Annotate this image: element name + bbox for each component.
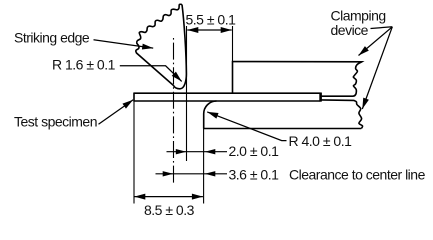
- top clamp outline: [233, 62, 362, 97]
- svg-text:R 4.0 ± 0.1: R 4.0 ± 0.1: [289, 133, 353, 149]
- dimension 2.0 left arrowhead: [176, 149, 187, 154]
- test specimen right end cap: [319, 93, 322, 102]
- dimension 3.6 left arrowhead: [163, 171, 174, 176]
- svg-text:R 1.6 ± 0.1: R 1.6 ± 0.1: [52, 57, 116, 73]
- specimen left end extension line: [133, 101, 135, 204]
- test specimen left end cap: [133, 93, 135, 102]
- dimension 2.0 line: [167, 151, 228, 153]
- clamping device arrow to bottom clamp: [362, 27, 392, 109]
- dimension 5.5 line: [187, 29, 231, 31]
- svg-text:device: device: [331, 22, 369, 38]
- center line (dash-dot): [173, 38, 175, 183]
- strike point extension line: [186, 26, 188, 161]
- svg-text:2.0 ± 0.1: 2.0 ± 0.1: [229, 143, 280, 159]
- bottom clamp face extension line: [203, 129, 205, 204]
- dimension 8.5 line: [134, 196, 203, 198]
- dimension 3.6 line: [156, 173, 228, 175]
- svg-text:3.6 ± 0.1: 3.6 ± 0.1: [229, 166, 280, 182]
- bottom clamp fillet R4.0 and left face: [204, 101, 217, 129]
- svg-text:Clearance to center line: Clearance to center line: [289, 166, 426, 182]
- clamping device arrow to top clamp: [359, 27, 393, 56]
- clamp face extension line: [232, 26, 234, 62]
- clamping device leader fork: [371, 27, 393, 29]
- svg-text:5.5 ± 0.1: 5.5 ± 0.1: [186, 12, 237, 28]
- test specimen bottom edge: [134, 100, 321, 102]
- test specimen leader arrow: [99, 100, 134, 124]
- dimension 2.0 right arrowhead: [205, 149, 216, 154]
- bottom clamp top face and jagged right edge: [321, 100, 363, 129]
- svg-text:Striking edge: Striking edge: [14, 30, 90, 46]
- R 1.6 leader arrow: [120, 66, 182, 82]
- svg-text:Test specimen: Test specimen: [14, 113, 97, 129]
- R 4.0 leader arrow: [207, 112, 286, 141]
- svg-text:8.5 ± 0.3: 8.5 ± 0.3: [144, 202, 195, 218]
- bottom clamp bottom edge: [204, 128, 362, 130]
- test specimen top edge: [134, 92, 321, 94]
- striking edge leader arrow: [94, 40, 154, 48]
- striking edge hammer outline: [136, 4, 187, 89]
- dimension 3.6 right arrowhead: [205, 171, 216, 176]
